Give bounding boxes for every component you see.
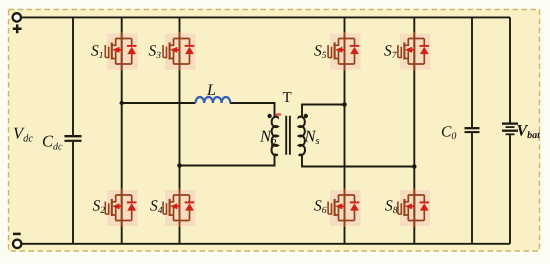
transistor S6 (MOSFET with body diode) (314, 189, 361, 228)
wire: battery rail with battery gap (509, 17, 511, 243)
capacitor Cdc (42, 132, 82, 153)
wire: bridge leg S7/S8 (413, 17, 415, 243)
transistor S8 (MOSFET with body diode) (385, 189, 430, 228)
transistor S2 (MOSFET with body diode) (93, 189, 138, 228)
wire: bridge leg S1/S2 (121, 17, 123, 243)
wire: primary upper tap - inductor - transformer top (122, 103, 275, 117)
wire: transformer secondary bottom - leg4 tap (302, 154, 414, 166)
node: leg3 mid junction (342, 102, 347, 107)
transistor S3 (MOSFET with body diode) (149, 32, 196, 71)
wire: left input rail with Cdc gap (72, 17, 74, 243)
wire: bottom DC bus (22, 243, 511, 245)
transformer T primary winding Np (259, 117, 278, 156)
capacitor C0 (441, 124, 480, 143)
transistor S5 (MOSFET with body diode) (314, 32, 361, 71)
transistor S1 (MOSFET with body diode) (91, 32, 138, 71)
wire: bridge leg S5/S6 (344, 17, 346, 243)
wire: C0 rail with plate gap (471, 17, 473, 243)
transformer core (286, 116, 290, 155)
small red mark on primary top (275, 113, 281, 115)
svg-text:L: L (206, 82, 216, 99)
transformer secondary winding Ns (299, 117, 320, 156)
inductor L (195, 82, 230, 103)
transformer polarity dot (primary) (267, 114, 271, 118)
transistor S7 (MOSFET with body diode) (384, 32, 430, 71)
wire: transformer secondary top - leg3 tap (302, 105, 345, 117)
node: leg1 mid junction (120, 101, 124, 105)
wire: bridge leg S3/S4 (179, 17, 181, 243)
transistor S4 (MOSFET with body diode) (150, 189, 196, 228)
wire: top DC bus (21, 16, 510, 18)
node: leg4 mid junction (412, 164, 417, 169)
minus sign (13, 233, 21, 236)
positive input terminal (13, 13, 21, 21)
transformer polarity dot (secondary) (304, 114, 308, 118)
svg-text:T: T (283, 90, 292, 106)
negative input terminal (13, 240, 21, 248)
plus sign (13, 24, 22, 33)
battery Vbat (502, 123, 541, 142)
wire: transformer primary bottom - leg2 tap (180, 154, 275, 165)
node: leg2 mid junction (177, 163, 182, 168)
